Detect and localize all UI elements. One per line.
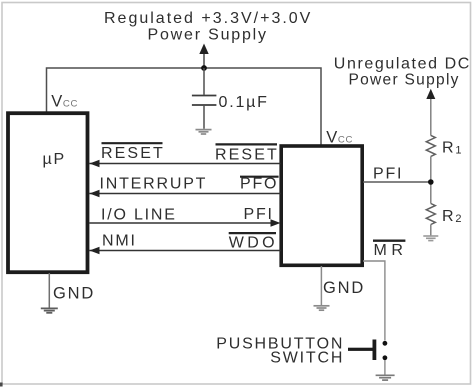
ground (IC) <box>314 306 330 310</box>
node: divider junction <box>428 179 434 185</box>
wire: R2 to ground <box>430 225 432 236</box>
svg-text:RESET: RESET <box>215 147 279 164</box>
svg-text:Unregulated DC: Unregulated DC <box>334 56 471 73</box>
pushbutton switch S1 <box>348 340 387 361</box>
svg-text:Regulated +3.3V/+3.0V: Regulated +3.3V/+3.0V <box>104 10 312 27</box>
svg-text:PFO: PFO <box>240 176 278 193</box>
microprocessor uP U1 <box>8 113 88 272</box>
svg-text:PFI: PFI <box>373 166 403 183</box>
svg-text:GND: GND <box>323 279 365 297</box>
ground (uP) <box>41 308 58 312</box>
wire: INTERRUPT / PFO net <box>90 190 281 198</box>
svg-text:INTERRUPT: INTERRUPT <box>100 176 208 193</box>
net: Unregulated DC supply label <box>334 56 471 89</box>
supply arrow (unregulated) <box>426 89 435 136</box>
wire: PFI to divider <box>363 181 431 183</box>
pin label MR (overline) <box>373 241 407 259</box>
resistor R2 <box>426 204 435 225</box>
svg-text:SWITCH: SWITCH <box>270 350 344 367</box>
wire: R1 to node <box>430 156 432 203</box>
svg-text:Power Supply: Power Supply <box>148 27 268 44</box>
svg-text:0.1µF: 0.1µF <box>219 94 269 111</box>
wire: VCC top rail <box>47 68 322 146</box>
pin label RESET (IC side, overline) <box>215 144 279 163</box>
resistor R1 <box>426 135 435 156</box>
wire: MR to pushbutton <box>363 261 385 341</box>
pin label WDO (overline) <box>229 233 278 251</box>
supply arrow (regulated) <box>199 44 208 69</box>
svg-text:WDO: WDO <box>229 235 278 252</box>
svg-text:I/O LINE: I/O LINE <box>101 207 177 224</box>
pin label PFO (overline) <box>240 176 279 193</box>
svg-text:GND: GND <box>53 285 95 303</box>
wire: NMI / WDO net <box>90 247 281 255</box>
svg-text:PFI: PFI <box>244 206 274 223</box>
label PUSHBUTTON SWITCH <box>216 336 344 367</box>
wire: I/O LINE / PFI net <box>90 219 281 227</box>
wire: uP GND stub <box>48 273 50 308</box>
ground (R2) <box>423 236 438 241</box>
svg-text:µP: µP <box>43 151 67 168</box>
svg-text:RESET: RESET <box>101 145 165 162</box>
supervisor IC U2 <box>281 146 362 265</box>
wire: RESET net <box>90 160 281 168</box>
wire: IC GND stub <box>320 266 322 305</box>
net: Regulated +3.3V/+3.0V supply label <box>104 10 312 44</box>
svg-text:NMI: NMI <box>102 233 137 250</box>
pin label RESET (uP side, overline) <box>101 143 165 162</box>
node: junction at capacitor <box>201 65 207 71</box>
capacitor C 0.1uF <box>192 68 217 129</box>
wire: pushbutton to ground <box>384 360 386 375</box>
ground (capacitor) <box>196 130 212 134</box>
svg-text:Power Supply: Power Supply <box>349 71 460 88</box>
ground (pushbutton) <box>376 375 395 380</box>
svg-text:MR: MR <box>374 242 408 259</box>
